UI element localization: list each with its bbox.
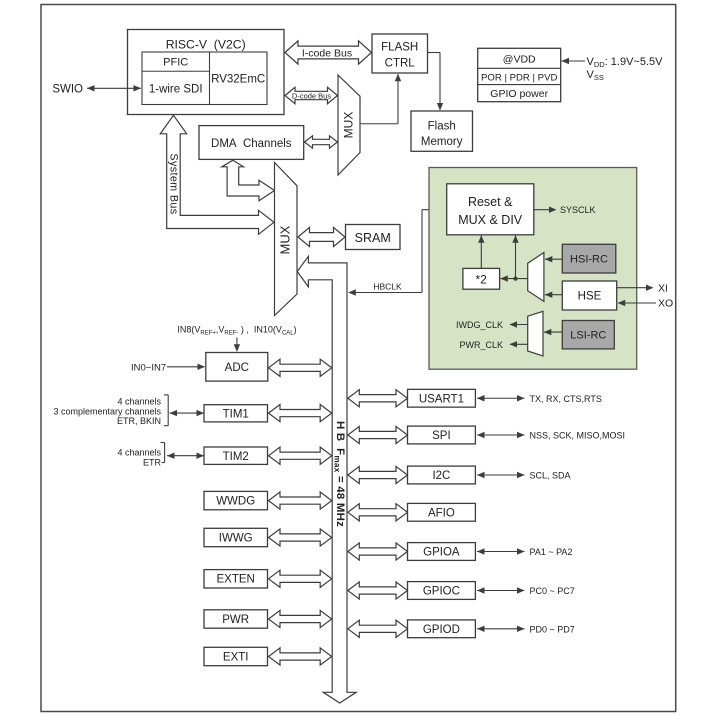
svg-text:PFIC: PFIC [163,57,188,69]
WWDG to HB bus arrow [269,492,332,509]
svg-text:SPI: SPI [432,430,451,442]
PWR to HB bus arrow [269,610,332,627]
SPI block [408,426,476,444]
svg-text:POR | PDR | PVD: POR | PDR | PVD [481,72,557,83]
MUX M1 (code bus mux) [338,75,360,175]
TIM1 channels annotation [53,396,161,426]
svg-text:TIM2: TIM2 [223,451,249,463]
TIM1 to HB bus arrow [269,405,332,422]
EXTI to HB bus arrow [269,648,332,665]
svg-text:PC0 ~ PC7: PC0 ~ PC7 [530,586,575,596]
wire LSI-RC to mux M4 [544,329,563,335]
svg-text:CTRL: CTRL [385,58,416,70]
wire mux M1 to FLASH CTRL [360,74,401,124]
HB bus to I2C arrow [348,466,408,483]
svg-text:XO: XO [658,298,673,310]
svg-text:TX, RX, CTS,RTS: TX, RX, CTS,RTS [530,394,602,404]
wire TIM1 channels (bidirectional) [170,412,205,414]
System Bus arrow (core to mux M2) [160,115,274,234]
GPIOA block [408,543,476,561]
DMA to mux M1 arrow [305,136,338,148]
svg-text:RV32EmC: RV32EmC [211,74,265,86]
USART1 block [408,389,476,407]
svg-text:USART1: USART1 [419,393,464,405]
svg-text:1-wire SDI: 1-wire SDI [149,84,203,96]
HB bus to AFIO arrow [348,504,408,521]
TIM2 annotation bracket [161,443,165,463]
wire FLASH CTRL to Flash Memory [428,53,444,111]
svg-text:Flash: Flash [428,121,456,133]
wire IN0-IN7 to ADC [167,364,205,370]
wire clock node to Reset MUX DIV [512,235,518,278]
I-code Bus arrow (core to flash ctrl) [285,41,372,64]
svg-text:EXTEN: EXTEN [217,574,255,586]
FLASH CTRL block [372,34,428,73]
ADC block [206,353,268,382]
AFIO block [408,503,476,521]
wire SWIO to core (bidirectional) [87,87,141,89]
svg-text:SRAM: SRAM [355,231,391,245]
junction dot clock node [513,277,517,281]
svg-text:IWWG: IWWG [219,532,253,544]
HB bus to GPIOC arrow [348,582,408,599]
RISC-V core block U1 [128,30,285,115]
svg-text:MUX: MUX [278,225,293,254]
MUX M2 (AHB matrix mux) [275,163,298,316]
svg-text:HBCLK: HBCLK [373,282,402,292]
svg-text:HSE: HSE [578,290,602,302]
svg-text:WWDG: WWDG [216,496,255,508]
clock MUX M4 trapezoid [528,311,543,356]
PWR block [204,610,268,628]
GPIOD block [408,620,476,638]
svg-text:4 channels: 4 channels [117,396,161,406]
wire IN8 IN10 to ADC [234,338,240,352]
wire GPIOD pins (bidirectional) [477,628,525,630]
svg-text:PWR: PWR [222,614,249,626]
EXTEN to HB bus arrow [269,570,332,587]
wire SPI pins (bidirectional) [477,434,525,436]
LSI-RC oscillator block [562,321,614,349]
svg-text:ETR, BKIN: ETR, BKIN [117,416,161,426]
svg-text:SWIO: SWIO [52,83,83,95]
TIM2 channels annotation [117,447,161,467]
D-code Bus arrow (core to mux) [285,87,338,103]
svg-text:AFIO: AFIO [428,507,455,519]
HSE oscillator block [562,281,616,310]
svg-text:MUX: MUX [342,112,356,139]
svg-text:GPIOC: GPIOC [423,586,460,598]
svg-text:FLASH: FLASH [381,42,418,54]
svg-text:SCL, SDA: SCL, SDA [530,471,571,481]
svg-text:*2: *2 [476,272,488,286]
WWDG block [204,491,268,509]
svg-text:EXTI: EXTI [223,651,249,663]
SRAM block [346,225,401,250]
wire clock mux M3 output to x2 [500,275,527,281]
EXTEN block [204,570,268,588]
svg-text:GPIOA: GPIOA [423,547,460,559]
svg-text:TIM1: TIM1 [223,409,249,421]
DMA to mux M2 elbow arrow [222,160,275,201]
svg-text:I2C: I2C [432,470,450,482]
svg-text:DMA Channels: DMA Channels [211,138,292,150]
svg-text:IN0~IN7: IN0~IN7 [131,362,166,373]
svg-text:ETR: ETR [143,458,162,468]
HB bus to SPI arrow [348,426,408,443]
GPIOC block [408,582,476,600]
svg-text:MUX & DIV: MUX & DIV [458,213,523,227]
svg-text:Reset &: Reset & [468,195,513,209]
svg-text:NSS, SCK, MISO,MOSI: NSS, SCK, MISO,MOSI [530,431,626,441]
mux M2 to SRAM arrow [298,227,345,246]
HSI-RC oscillator block [562,244,616,273]
svg-text:HSI-RC: HSI-RC [570,254,608,266]
wire PWR_CLK output [510,341,528,347]
svg-text:3 complementary channels: 3 complementary channels [53,407,161,417]
ADC to HB bus arrow [269,359,332,376]
Flash Memory block [411,111,473,151]
wire I2C pins (bidirectional) [477,474,525,476]
DMA Channels block [199,126,304,160]
svg-text:RISC-V (V2C): RISC-V (V2C) [166,38,246,52]
I2C block [408,466,476,484]
svg-text:@VDD: @VDD [503,53,536,65]
svg-text:GPIOD: GPIOD [423,624,460,636]
svg-text:SYSCLK: SYSCLK [560,205,596,215]
RCC clock block (green region) [429,168,637,370]
wire GPIOA pins (bidirectional) [477,551,525,553]
wire HBCLK from Reset MUX DIV to HB bus [348,210,446,296]
HB bus to USART1 arrow [348,390,408,407]
svg-text:PD0 ~ PD7: PD0 ~ PD7 [530,624,575,634]
wire IWDG_CLK output [510,321,528,327]
power block (@VDD POR PDR PVD GPIO power) [478,48,561,101]
IWWG to HB bus arrow [269,529,332,546]
IWWG block [204,528,268,546]
wire TIM2 channels (bidirectional) [167,455,204,457]
svg-text:XI: XI [658,282,668,294]
wire XO crystal pin [618,300,656,306]
TIM1 block [204,405,268,422]
HB bus to GPIOD arrow [348,620,408,637]
svg-text:LSI-RC: LSI-RC [570,330,606,342]
x2 PLL multiplier block [463,268,500,289]
wire HSE to mux M3 [545,292,563,298]
clock MUX M3 trapezoid [528,253,544,302]
svg-text:D-code Bus: D-code Bus [292,91,331,100]
wire x2 to Reset MUX DIV [478,235,484,268]
svg-text:ADC: ADC [225,362,249,374]
wire VDD supply to power block [562,58,586,64]
wire XI crystal pin [617,285,654,291]
TIM2 to HB bus arrow [269,447,332,464]
wire HSI-RC to mux M3 [545,256,563,262]
svg-text:GPIO power: GPIO power [490,88,548,100]
Reset MUX DIV block [447,184,534,235]
TIM1 annotation bracket [164,395,168,426]
wire SYSCLK output [534,207,557,213]
svg-text:H B Fmax = 48 MHz: H B Fmax = 48 MHz [332,421,346,527]
svg-text:I-code Bus: I-code Bus [302,47,352,59]
svg-text:Memory: Memory [421,136,463,148]
EXTI block [204,647,268,665]
svg-text:IWDG_CLK: IWDG_CLK [456,320,503,330]
svg-text:PWR_CLK: PWR_CLK [459,340,503,350]
wire USART1 pins (bidirectional) [477,397,525,399]
HB bus to GPIOA arrow [348,543,408,560]
HB bus arrow (AHB peripheral bus) [297,256,356,703]
svg-text:4 channels: 4 channels [117,447,161,457]
wire GPIOC pins (bidirectional) [477,590,525,592]
svg-text:System Bus: System Bus [168,153,180,214]
svg-text:PA1 ~ PA2: PA1 ~ PA2 [530,547,573,557]
TIM2 block [204,447,268,464]
